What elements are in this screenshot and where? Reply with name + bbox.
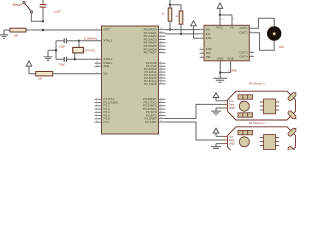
svg-text:15: 15 bbox=[201, 56, 203, 58]
svg-text:P2.7/A15: P2.7/A15 bbox=[144, 82, 157, 86]
svg-text:IR Sensor 1: IR Sensor 1 bbox=[249, 81, 265, 85]
sensor 2 resistor block top bbox=[238, 130, 253, 134]
pin stubs U1 right (P0, P2, P3 ports) bbox=[159, 30, 166, 122]
wire OUT1 to motor top bbox=[254, 18, 274, 28]
svg-text:Reset: Reset bbox=[13, 3, 22, 7]
pin name labels U2 bbox=[206, 26, 235, 61]
svg-text:GND: GND bbox=[227, 57, 235, 61]
resistor R1 10k bbox=[4, 28, 26, 32]
ground (sensor 1) bbox=[211, 108, 221, 115]
wire U2 ground pins bbox=[220, 61, 230, 73]
svg-text:OUT4: OUT4 bbox=[239, 54, 247, 58]
svg-text:1: 1 bbox=[201, 37, 202, 39]
wire OUT2 to motor bottom bbox=[254, 33, 274, 51]
svg-text:10: 10 bbox=[201, 52, 203, 54]
sensor 2 pin stubs bbox=[223, 136, 228, 143]
wire supply to VCC and VS pins bbox=[220, 15, 232, 25]
resistor R3 1k (pullup P0.1) bbox=[179, 5, 183, 34]
svg-text:OUT1: OUT1 bbox=[239, 26, 247, 30]
svg-text:33pF: 33pF bbox=[59, 63, 66, 67]
crystal X1 bbox=[73, 41, 84, 60]
pin name labels U1 left bbox=[104, 28, 119, 125]
svg-text:2: 2 bbox=[201, 28, 202, 30]
junction dot rail bbox=[169, 4, 171, 6]
pin stubs U2 left bbox=[200, 30, 205, 58]
svg-text:RST: RST bbox=[104, 28, 110, 32]
svg-text:14: 14 bbox=[251, 55, 253, 57]
switch SW1 (reset pushbutton) bbox=[23, 1, 33, 12]
motor driver U2 (L293D) body bbox=[204, 25, 249, 61]
wire VCC to sensor 2 bbox=[216, 135, 223, 137]
wire XTAL2 net bbox=[56, 58, 64, 60]
wire switch to reset node bbox=[31, 13, 43, 21]
junction dot on reset line bbox=[42, 29, 44, 31]
power VCC (sensor 2) bbox=[213, 128, 219, 136]
pin stubs U2 right bbox=[249, 28, 254, 56]
svg-text:ALE: ALE bbox=[104, 64, 110, 68]
motor M1 bbox=[267, 26, 281, 40]
svg-text:10k: 10k bbox=[38, 77, 43, 81]
svg-text:GND: GND bbox=[217, 57, 225, 61]
sensor 1 trimmer circle bbox=[239, 101, 249, 111]
svg-text:GND: GND bbox=[229, 107, 235, 110]
svg-text:OUT2: OUT2 bbox=[239, 31, 247, 35]
svg-text:3: 3 bbox=[251, 27, 252, 29]
IR sensor module 2 bbox=[223, 121, 298, 157]
microcontroller U1 (AT89C52) body bbox=[102, 26, 159, 134]
svg-text:6: 6 bbox=[251, 31, 252, 33]
wire P0.1 to IN2 bbox=[166, 33, 200, 35]
svg-text:11: 11 bbox=[251, 51, 253, 53]
capacitor C1 33pF bbox=[64, 38, 66, 43]
capacitor C3 10uF (polarized) bbox=[40, 0, 47, 21]
svg-text:MOT: MOT bbox=[279, 46, 285, 49]
wire VCC to sensor 1 bbox=[216, 100, 223, 102]
svg-text:P0.7/AD7: P0.7/AD7 bbox=[144, 51, 157, 55]
svg-text:IN4: IN4 bbox=[206, 55, 211, 59]
wire XTAL2 node to chip bbox=[75, 58, 102, 60]
svg-text:P3.7/RD: P3.7/RD bbox=[145, 120, 157, 124]
IR sensor module 1 bbox=[223, 81, 298, 120]
resistor R2 1k (pullup P0.0) bbox=[168, 5, 172, 30]
sensor 2 body outline bbox=[228, 127, 296, 156]
junction dot R3/IN2 bbox=[180, 33, 182, 35]
svg-text:XTAL1: XTAL1 bbox=[104, 39, 113, 43]
sensor 2 photodiode bottom bbox=[287, 146, 298, 157]
junction dot supply bbox=[219, 14, 221, 16]
pin name labels U1 right bbox=[143, 28, 157, 124]
wire sensor 2 GND bbox=[216, 143, 223, 145]
svg-text:GND: GND bbox=[229, 143, 235, 146]
wire VCC to R4 bbox=[29, 73, 36, 75]
junction dot XTAL2 node bbox=[74, 58, 76, 60]
svg-text:VCC: VCC bbox=[216, 26, 223, 30]
pin numbers U2 bbox=[201, 19, 253, 58]
power VCC (EN1) bbox=[191, 21, 197, 38]
wire R4 to EA pin bbox=[53, 73, 102, 75]
sensor 1 resistor block bottom bbox=[238, 113, 253, 117]
power VCC (sensor 1) bbox=[213, 93, 219, 101]
sensor 1 pin stubs bbox=[223, 101, 228, 108]
pin stubs U1 left (PSEN, ALE, P1.0-P1.7) bbox=[95, 63, 102, 122]
sensor 2 IC bbox=[260, 135, 279, 150]
svg-text:EA: EA bbox=[104, 72, 108, 76]
sensor 1 pin labels Vcc Data GND bbox=[229, 100, 235, 110]
wire VCC rail to pullups bbox=[170, 0, 181, 5]
junction dot at cap/switch node bbox=[42, 20, 44, 22]
svg-text:Data: Data bbox=[229, 139, 235, 142]
svg-text:10k: 10k bbox=[14, 33, 19, 37]
svg-text:33pF: 33pF bbox=[59, 44, 66, 48]
pin numbers U1 left bbox=[96, 28, 99, 123]
sensor 1 photodiode bottom bbox=[287, 110, 298, 121]
svg-text:P1.7: P1.7 bbox=[104, 120, 111, 124]
pin numbers U1 right bbox=[160, 28, 163, 122]
svg-text:EN1: EN1 bbox=[206, 36, 212, 40]
svg-text:VS: VS bbox=[230, 26, 234, 30]
wire VCC to EN1 bbox=[194, 37, 200, 39]
junction dot bracket bbox=[55, 49, 57, 51]
sensor 1 IC bbox=[260, 99, 279, 114]
wire P0.0 to IN1 bbox=[166, 29, 200, 31]
power VCC (U2 supply) bbox=[217, 3, 223, 15]
sensor 2 trimmer circle bbox=[239, 137, 249, 147]
wire reset line to RST pin bbox=[26, 29, 102, 31]
power VCC (EA pin) bbox=[26, 61, 32, 74]
wire P3.6 to sensor 1 data bbox=[166, 104, 223, 118]
wire C1 to crystal node bbox=[66, 40, 79, 42]
svg-text:IR Sensor 2: IR Sensor 2 bbox=[249, 121, 265, 125]
svg-text:CRYSTAL: CRYSTAL bbox=[84, 48, 96, 52]
wire XTAL1 node to chip bbox=[79, 40, 102, 42]
junction dot ground bbox=[219, 71, 221, 73]
svg-text:L293D: L293D bbox=[229, 69, 239, 73]
junction dot R2/IN1 bbox=[169, 28, 171, 30]
sensor 2 IR LED top bbox=[287, 126, 298, 137]
capacitor C2 33pF bbox=[64, 57, 66, 62]
ground (crystal caps) bbox=[44, 50, 53, 60]
svg-text:16: 16 bbox=[221, 19, 223, 21]
ground (reset resistor) bbox=[0, 30, 8, 38]
svg-text:7: 7 bbox=[201, 32, 202, 34]
wire C2 to crystal node bbox=[66, 58, 74, 60]
sensor 1 resistor block top bbox=[238, 95, 253, 99]
wire XTAL1 net bbox=[56, 40, 64, 42]
resistor R4 10k (EA) bbox=[36, 72, 53, 76]
wire P3.7 to sensor 2 data bbox=[166, 122, 223, 140]
svg-text:9: 9 bbox=[201, 48, 202, 50]
sensor 1 body outline bbox=[228, 91, 296, 120]
svg-text:8: 8 bbox=[233, 19, 234, 21]
wire capacitor ground bracket bbox=[48, 41, 56, 60]
ground (sensor 2) bbox=[211, 144, 221, 149]
ground (U2) bbox=[213, 73, 227, 83]
wire sensor 1 GND bbox=[216, 107, 223, 109]
sensor 1 IR LED top bbox=[287, 91, 298, 102]
svg-text:Data: Data bbox=[229, 103, 235, 106]
svg-text:10uF: 10uF bbox=[54, 9, 61, 13]
sensor 2 pin labels Vcc Data GND bbox=[229, 135, 235, 145]
junction dot XTAL1 node bbox=[78, 40, 80, 42]
